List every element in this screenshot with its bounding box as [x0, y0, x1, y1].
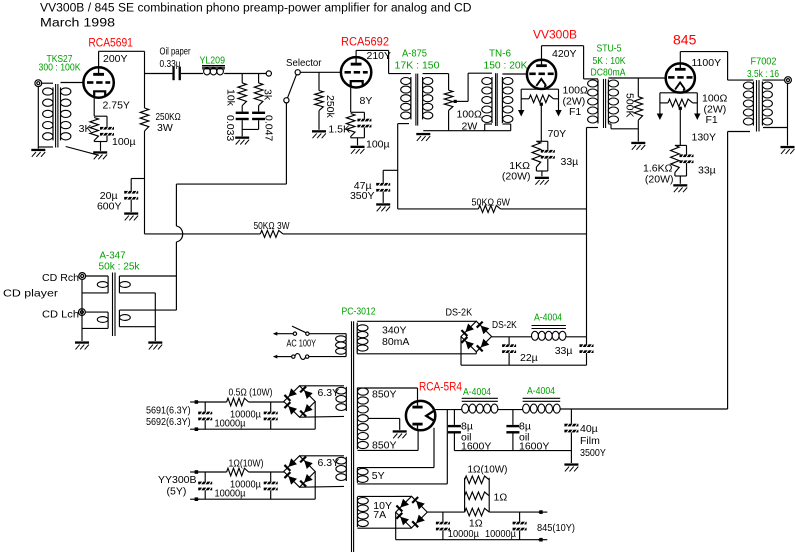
svg-text:1100Y: 1100Y [692, 57, 722, 69]
svg-text:3k: 3k [262, 89, 274, 101]
svg-text:845(10Y): 845(10Y) [537, 522, 575, 534]
svg-text:(5Y): (5Y) [167, 486, 187, 498]
svg-text:March 1998: March 1998 [40, 18, 115, 30]
svg-text:3K: 3K [79, 123, 92, 135]
svg-text:A-875: A-875 [402, 48, 427, 60]
svg-text:7A: 7A [373, 509, 386, 521]
svg-text:5Y: 5Y [372, 470, 385, 482]
svg-text:40µ: 40µ [580, 423, 598, 435]
svg-text:CD Lch: CD Lch [42, 309, 79, 321]
svg-text:340Y: 340Y [382, 325, 407, 337]
svg-text:1Ω(10W): 1Ω(10W) [229, 458, 264, 470]
svg-text:3W: 3W [157, 122, 173, 134]
svg-text:YY300B: YY300B [158, 474, 197, 486]
svg-text:850Y: 850Y [372, 389, 397, 401]
svg-text:CD Rch: CD Rch [42, 272, 79, 284]
svg-text:845: 845 [673, 32, 697, 48]
svg-text:100µ: 100µ [112, 136, 136, 148]
svg-text:100µ: 100µ [366, 139, 390, 151]
svg-text:DS-2K: DS-2K [492, 319, 517, 331]
svg-text:A-4004: A-4004 [534, 311, 562, 323]
svg-text:50KΩ 3W: 50KΩ 3W [254, 220, 290, 232]
svg-text:33µ: 33µ [555, 345, 573, 357]
svg-text:130Y: 130Y [692, 132, 717, 144]
svg-text:500K: 500K [624, 93, 636, 118]
svg-text:F1: F1 [706, 114, 718, 126]
svg-text:600Y: 600Y [97, 201, 122, 213]
svg-text:6.3Y: 6.3Y [318, 387, 340, 399]
svg-text:2.75Y: 2.75Y [103, 100, 130, 112]
svg-text:RCA-5R4: RCA-5R4 [419, 382, 463, 394]
svg-text:VV300B / 845 SE combination ph: VV300B / 845 SE combination phono preamp… [40, 3, 471, 15]
svg-text:17K : 150: 17K : 150 [395, 60, 440, 72]
svg-text:850Y: 850Y [372, 440, 397, 452]
svg-text:(20W): (20W) [502, 171, 531, 183]
svg-text:5691(6.3Y): 5691(6.3Y) [146, 405, 191, 417]
svg-text:210Y: 210Y [367, 50, 392, 62]
svg-text:Selector: Selector [286, 57, 322, 69]
svg-text:RCA5691: RCA5691 [88, 38, 132, 50]
svg-text:0.5Ω (10W): 0.5Ω (10W) [229, 387, 273, 399]
svg-text:CD player: CD player [3, 288, 59, 300]
svg-text:50KΩ 6W: 50KΩ 6W [472, 196, 511, 208]
svg-text:5692(6.3Y): 5692(6.3Y) [146, 416, 191, 428]
svg-text:10000µ: 10000µ [485, 528, 516, 540]
svg-text:(20W): (20W) [645, 174, 674, 186]
svg-text:Oil paper: Oil paper [160, 46, 191, 58]
svg-text:420Y: 420Y [552, 48, 577, 60]
svg-text:TN-6: TN-6 [489, 48, 511, 60]
svg-text:RCA5692: RCA5692 [341, 37, 389, 49]
svg-text:0.033: 0.033 [224, 115, 236, 141]
svg-text:3.5k : 16: 3.5k : 16 [747, 68, 779, 80]
svg-text:0.33µ: 0.33µ [160, 58, 181, 70]
svg-text:F1: F1 [569, 106, 581, 118]
svg-text:33µ: 33µ [561, 156, 579, 168]
svg-text:5K : 10K: 5K : 10K [593, 55, 626, 67]
svg-text:VV300B: VV300B [533, 30, 577, 42]
svg-text:1Ω(10W): 1Ω(10W) [468, 464, 508, 476]
svg-text:200Y: 200Y [103, 53, 128, 65]
svg-text:10k: 10k [225, 89, 237, 107]
svg-text:300 : 100K: 300 : 100K [39, 62, 81, 74]
svg-text:YL209: YL209 [200, 55, 226, 67]
svg-text:1.5K: 1.5K [328, 124, 350, 136]
svg-text:10000µ: 10000µ [215, 488, 246, 500]
svg-text:PC-3012: PC-3012 [342, 306, 376, 318]
svg-text:AC 100Y: AC 100Y [287, 338, 317, 350]
svg-text:8Y: 8Y [360, 95, 373, 107]
svg-text:350Y: 350Y [350, 190, 375, 202]
svg-text:10000µ: 10000µ [448, 528, 479, 540]
svg-text:Film: Film [580, 435, 600, 447]
svg-text:STU-5: STU-5 [597, 43, 622, 55]
svg-text:F7002: F7002 [751, 56, 777, 68]
svg-text:150 : 20K: 150 : 20K [484, 60, 528, 72]
svg-text:10000µ: 10000µ [215, 418, 246, 430]
svg-text:33µ: 33µ [698, 165, 716, 177]
svg-text:6.3Y: 6.3Y [318, 457, 340, 469]
svg-text:22µ: 22µ [520, 352, 538, 364]
svg-text:DC80mA: DC80mA [591, 67, 626, 79]
svg-text:0.047: 0.047 [263, 115, 275, 141]
svg-text:A-4004: A-4004 [527, 385, 555, 397]
svg-text:250k: 250k [324, 95, 336, 119]
svg-text:1Ω: 1Ω [494, 492, 508, 504]
svg-text:100Ω: 100Ω [457, 109, 483, 121]
svg-text:70Y: 70Y [548, 128, 567, 140]
svg-text:DS-2K: DS-2K [446, 307, 473, 319]
svg-text:3500Y: 3500Y [580, 447, 606, 459]
svg-text:A-4004: A-4004 [463, 386, 491, 398]
svg-text:80mA: 80mA [382, 336, 409, 348]
svg-text:50k : 25k: 50k : 25k [99, 261, 141, 273]
